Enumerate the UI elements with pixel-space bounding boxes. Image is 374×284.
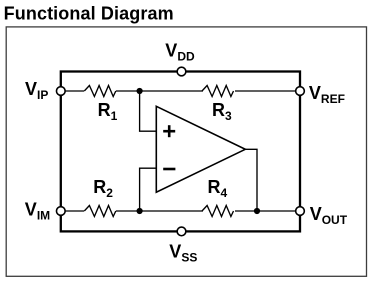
wire node B to op-amp inverting input [140,168,157,211]
label VSS [169,241,197,264]
label VOUT [310,204,348,227]
wire R2 to R4 through node B [116,210,203,212]
op-amp U1 [156,106,245,192]
label R2 [93,177,113,200]
terminal VSS [177,227,186,236]
device boundary box [61,72,300,232]
label R4 [208,177,228,200]
terminal VDD [177,67,186,76]
label VREF [309,83,345,106]
terminal VOUT [296,207,305,216]
title [4,4,174,24]
junction node A [137,88,143,94]
resistor R4 [202,206,234,217]
wire R4 to VOUT through node C [235,210,300,212]
resistor R3 [202,86,234,97]
junction node C [254,208,260,214]
wire node A to op-amp noninverting input [140,91,157,131]
terminal VIM [56,207,65,216]
junction node B [137,208,143,214]
label VIM [25,200,50,223]
wire R1 to R3 through node A [116,90,203,92]
label VDD [165,41,195,64]
label VIP [25,79,48,102]
label R3 [212,100,232,123]
wire R3 to VREF [235,90,300,92]
svg-text:Functional Diagram: Functional Diagram [4,4,174,24]
resistor R2 [84,206,116,217]
terminal VIP [56,87,65,96]
wire VIP to R1 [61,90,84,92]
op-amp noninverting input marking (+) [163,125,175,137]
resistor R1 [84,86,116,97]
terminal VREF [296,87,305,96]
label R1 [98,100,118,123]
wire op-amp output to node C [245,149,257,211]
wire VIM to R2 [61,210,84,212]
op-amp inverting input marking (-) [163,168,175,171]
